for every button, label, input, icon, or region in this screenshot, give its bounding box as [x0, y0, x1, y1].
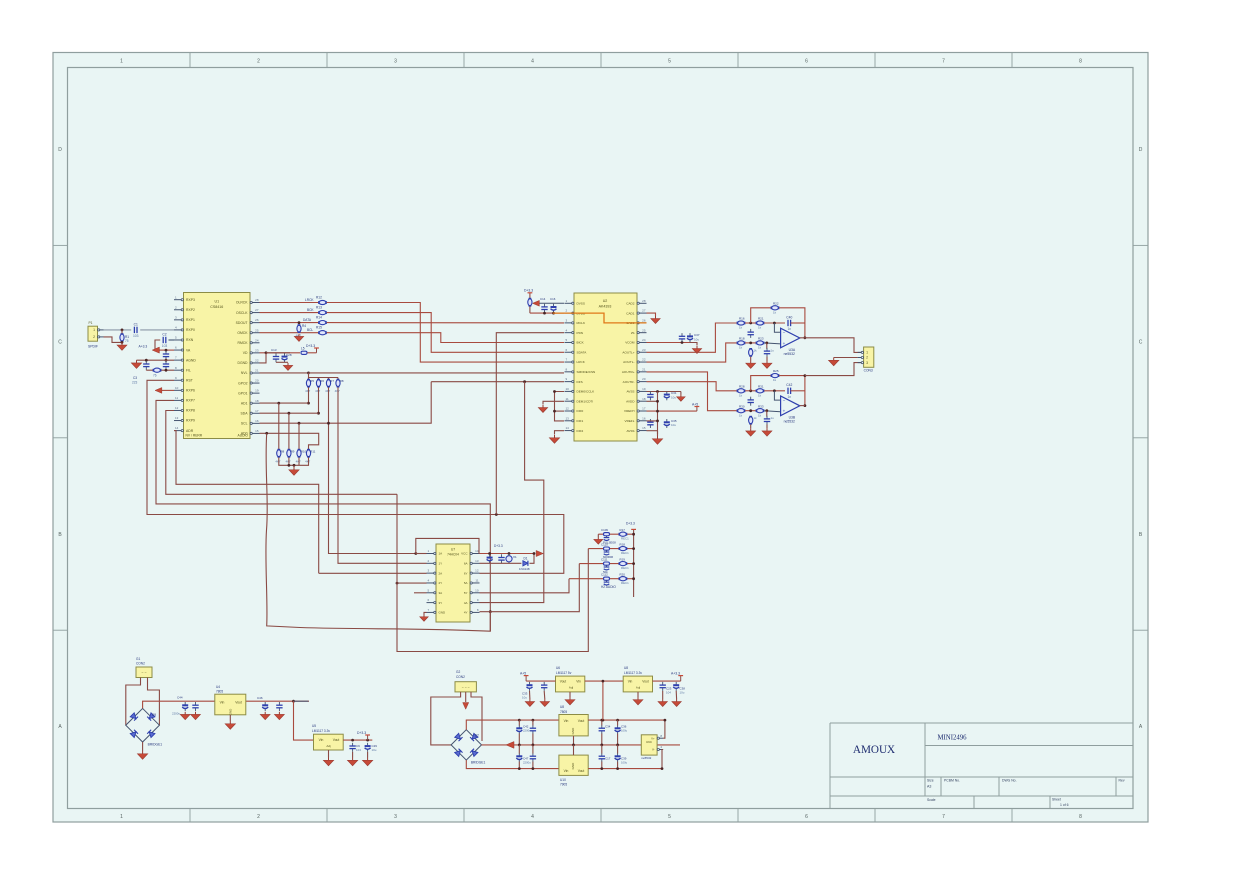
svg-text:GPO1: GPO1	[238, 391, 248, 395]
label C35 10u	[671, 419, 677, 427]
svg-text:AOUTL-: AOUTL-	[623, 360, 634, 364]
svg-text:LM1117 3.3v: LM1117 3.3v	[312, 729, 330, 733]
svg-text:2: 2	[93, 335, 95, 339]
power flag below G2	[463, 703, 469, 710]
svg-text:R22: R22	[773, 301, 779, 305]
svg-text:C111: C111	[601, 557, 608, 561]
wire OMCK to R15	[260, 332, 319, 334]
svg-text:D1: D1	[524, 557, 528, 561]
pin 7 AGND	[174, 356, 196, 363]
ic U2 AK4393	[574, 293, 637, 441]
svg-text:Vin: Vin	[628, 680, 633, 684]
svg-text:DATA: DATA	[303, 318, 312, 322]
svg-text:MINI2496: MINI2496	[938, 735, 968, 742]
svg-text:R10: R10	[301, 449, 307, 453]
ic U1 CS8416	[184, 293, 251, 439]
wire U7 6A	[480, 562, 522, 564]
svg-text:R30: R30	[739, 404, 745, 408]
wire D2 mid rail	[482, 744, 681, 746]
junction mid rail C12	[532, 744, 535, 747]
label C38 10u	[680, 687, 686, 695]
capacitor C50	[365, 743, 371, 752]
svg-text:ne5532: ne5532	[641, 756, 651, 760]
wire R r gnd	[750, 424, 752, 428]
label R7 4K7	[325, 379, 334, 393]
pin 14 DIF2	[565, 426, 584, 433]
svg-text:Vin: Vin	[564, 769, 569, 773]
junction U8 gnd	[572, 744, 575, 747]
label U9C ne5532	[641, 756, 651, 760]
svg-text:P1: P1	[88, 321, 92, 325]
wire pullup 2 top	[318, 378, 320, 379]
wire pullup rail	[309, 373, 339, 378]
pin 5 3A	[427, 588, 443, 595]
wire L lower rail	[737, 342, 741, 344]
ground below C44	[180, 712, 190, 720]
svg-text:U1: U1	[214, 300, 219, 304]
label R30	[739, 404, 745, 417]
label C9 104	[356, 744, 361, 752]
wire U10 gnd	[573, 745, 575, 755]
svg-text:Vout: Vout	[560, 680, 566, 684]
pin 12 RXP8	[174, 406, 195, 413]
junction C50 top	[366, 739, 369, 742]
pin 16 SCL	[241, 419, 260, 426]
pin 4 PDN	[565, 328, 584, 335]
wire L feedback right	[779, 308, 805, 338]
connector G1 CON2	[136, 667, 152, 678]
svg-text:Adj: Adj	[326, 744, 331, 748]
resistor R20 in row4	[619, 577, 628, 581]
svg-text:RMCK: RMCK	[238, 341, 249, 345]
svg-text:LRCK: LRCK	[577, 360, 586, 364]
wire pullup 4 top	[337, 378, 339, 379]
wire R8 drop	[278, 403, 280, 449]
wire H2 row4	[569, 578, 634, 580]
ground below C33	[525, 699, 534, 707]
pin 24 VCOM	[625, 338, 646, 345]
wire C47 dn stub	[518, 762, 520, 769]
wire H2 row1 left	[597, 534, 599, 537]
wire L6 to DVDD rail	[529, 306, 531, 313]
power A+5 at U6 out	[520, 671, 529, 681]
capacitor C47 lower	[516, 753, 522, 762]
svg-text:BCK: BCK	[307, 308, 314, 312]
label D+3.3 at DVDD	[524, 289, 533, 293]
wire H2 row3	[579, 563, 633, 565]
wire R9 bottom	[288, 457, 290, 465]
svg-text:DEM1/CDTI: DEM1/CDTI	[577, 399, 594, 403]
ground below R8-R11	[289, 467, 299, 475]
wire RXP6 pin flag	[160, 389, 174, 391]
svg-text:CON3: CON3	[864, 369, 873, 373]
label R18	[739, 337, 745, 350]
wire pullup3 tail to U7 1A	[329, 387, 416, 553]
label U5 LM1117	[312, 724, 330, 733]
svg-text:76: 76	[153, 374, 157, 378]
wire AOUTL- long	[647, 343, 737, 362]
svg-text:SDATA: SDATA	[577, 350, 588, 354]
svg-text:5: 5	[668, 59, 671, 65]
svg-text:C37: C37	[694, 333, 700, 337]
svg-text:R21: R21	[758, 317, 764, 321]
svg-text:2Y: 2Y	[439, 581, 443, 585]
svg-text:4A: 4A	[464, 601, 468, 605]
ground below C41	[762, 428, 772, 436]
label U4 7805	[216, 685, 223, 694]
pin 11 DEM1/CDTI	[565, 397, 594, 404]
svg-text:R11: R11	[310, 449, 315, 453]
wire SDOUT to R14	[260, 322, 319, 324]
capacitor C41 to gnd	[764, 416, 770, 425]
power A+5 at VREFH	[692, 402, 699, 411]
svg-text:1n: 1n	[787, 395, 791, 399]
capacitor C49	[349, 743, 355, 752]
svg-text:R16: R16	[739, 317, 745, 321]
svg-text:2: 2	[257, 814, 260, 820]
junction VA C5	[165, 349, 168, 352]
sheet background	[53, 53, 1148, 823]
svg-text:2: 2	[257, 59, 260, 65]
label R8 4K7	[275, 449, 284, 463]
svg-text:22: 22	[642, 358, 646, 362]
junction V- rail	[661, 767, 664, 770]
capacitor C33	[527, 682, 533, 691]
svg-text:A+3.3: A+3.3	[671, 671, 680, 675]
power flag right of U7	[536, 550, 543, 556]
svg-text:10u: 10u	[671, 423, 676, 427]
svg-text:C110: C110	[601, 542, 608, 546]
resistor R11	[306, 449, 310, 458]
capacitor C36	[163, 361, 169, 370]
label BCK R13	[307, 306, 322, 312]
svg-text:RXN: RXN	[186, 338, 194, 342]
label C42	[523, 725, 531, 733]
svg-text:AMOUX: AMOUX	[853, 744, 895, 756]
wire R inv node	[764, 390, 785, 392]
junction tail1 AD1	[307, 402, 310, 405]
wire C17 up mid2	[601, 745, 603, 754]
wire RXP7 bus	[156, 400, 490, 631]
resistor R30	[737, 409, 746, 413]
wire C19b up mid	[532, 745, 534, 754]
label 1N4148	[519, 567, 530, 571]
svg-text:D: D	[1139, 147, 1143, 153]
resistor R33	[756, 409, 765, 413]
svg-text:NV / RERR: NV / RERR	[186, 433, 203, 437]
label C23 104	[666, 687, 672, 695]
title block grid	[830, 723, 1133, 809]
svg-text:Vin: Vin	[220, 701, 225, 705]
pin 19 AVSS	[626, 387, 646, 394]
pin 19 GPO1	[238, 389, 259, 396]
svg-text:RXP8: RXP8	[186, 409, 195, 413]
ground below C45	[191, 712, 201, 720]
pin 23 VD	[243, 348, 260, 355]
wire C33 gnd	[529, 691, 531, 699]
svg-text:VA: VA	[186, 348, 191, 352]
svg-text:1n: 1n	[787, 327, 791, 331]
resistor R9	[287, 449, 291, 458]
pin 6 SDATA	[565, 348, 588, 355]
svg-text:PCBM No.: PCBM No.	[944, 779, 960, 783]
resistor R28	[737, 389, 746, 393]
capacitor C38b	[673, 682, 679, 691]
wire AD1 jog	[260, 402, 309, 404]
resistor L6 feed	[528, 298, 532, 307]
svg-text:223: 223	[132, 381, 138, 385]
svg-text:R18: R18	[620, 542, 626, 546]
resistor R5 pull-up	[306, 379, 310, 388]
wire L r gnd	[750, 357, 752, 361]
svg-text:Rev: Rev	[1119, 779, 1125, 783]
svg-text:GND: GND	[571, 727, 575, 735]
wire C10 gnd	[543, 691, 546, 699]
capacitor C42	[786, 383, 792, 399]
junction 4Y bus	[489, 610, 492, 613]
wire R c41 gnd	[766, 424, 768, 428]
svg-text:AOUTR-: AOUTR-	[623, 380, 635, 384]
pin 9 RST	[174, 376, 193, 383]
svg-text:A3: A3	[927, 785, 931, 789]
label U10 GND	[571, 762, 575, 770]
svg-text:1u: 1u	[771, 348, 775, 352]
pin 14 ADR	[174, 426, 194, 433]
pin 2 RXP2	[174, 305, 195, 312]
svg-text:1u: 1u	[771, 416, 775, 420]
capacitor C110 hang	[604, 550, 610, 555]
capacitor C27	[276, 702, 282, 711]
svg-text:AOUTL+: AOUTL+	[622, 350, 634, 354]
junction mid rail C42	[518, 744, 521, 747]
wire DVSS rail	[539, 302, 565, 304]
svg-text:25: 25	[642, 328, 646, 332]
svg-text:C13: C13	[271, 348, 277, 352]
pin 15 AVSS	[626, 426, 646, 433]
capacitor C16	[551, 304, 557, 313]
wire G1 pin2	[148, 678, 160, 726]
svg-text:SCL: SCL	[241, 422, 248, 426]
svg-text:X1: X1	[513, 555, 517, 559]
svg-text:Vout: Vout	[578, 769, 585, 773]
junction SCL R10	[298, 422, 301, 425]
ground at U5	[323, 758, 333, 766]
pin 2 1Y	[427, 559, 443, 566]
wire OLRCK to R12	[260, 302, 319, 304]
junction L inv	[773, 322, 776, 325]
resistor R4	[297, 324, 301, 333]
svg-text:VREFH: VREFH	[624, 409, 635, 413]
wire C42 to mid	[518, 734, 520, 745]
label R25	[773, 369, 779, 382]
wire AOUTR- long	[647, 382, 737, 391]
junction R1 pin2	[121, 341, 124, 344]
wire L inv drop	[774, 323, 780, 332]
resistor R21	[756, 321, 765, 325]
pin 10 RXP6	[174, 386, 195, 393]
wire AOUTR+ long	[647, 372, 737, 411]
ground at DEM1	[538, 405, 547, 413]
op-amp U3B ne5532	[781, 396, 800, 424]
svg-text:10: 10	[475, 588, 479, 592]
svg-text:AD1: AD1	[241, 401, 248, 405]
wire AVSS19 caps rail	[647, 391, 681, 393]
label C29 10u	[372, 744, 378, 752]
connector J1 CON3	[864, 347, 874, 367]
wire U6 vout left	[526, 680, 555, 682]
junction R noninv	[765, 409, 768, 412]
ground below C49	[347, 758, 357, 766]
wire C39 dn stub2	[617, 762, 619, 769]
svg-text:R31: R31	[758, 384, 764, 388]
wire R J2 to R4	[745, 410, 756, 412]
svg-text:1: 1	[93, 328, 95, 332]
wire -5 rail right	[588, 768, 662, 770]
svg-text:Vout: Vout	[642, 680, 648, 684]
wire SPDIF pin2 to ground	[104, 337, 123, 343]
ground below C46	[260, 712, 270, 720]
svg-text:FIL: FIL	[186, 368, 191, 372]
junction L noninv	[765, 342, 768, 345]
label H2 row4	[601, 573, 629, 586]
svg-text:24: 24	[255, 338, 259, 342]
connector P1 SPDIF	[88, 321, 98, 341]
wire G2 pin1	[431, 692, 461, 745]
capacitor C14	[541, 304, 547, 313]
bridge rectifier D2	[451, 730, 485, 765]
svg-text:Vin: Vin	[576, 680, 581, 684]
svg-text:AVSS: AVSS	[626, 390, 634, 394]
wire U7 1A pin	[416, 553, 427, 555]
pin 15 AD0	[241, 429, 260, 436]
label DATA R14	[303, 316, 322, 322]
ground below C46	[746, 428, 756, 436]
svg-text:RXP1: RXP1	[186, 318, 195, 322]
svg-text:1: 1	[866, 351, 868, 355]
power flag at DVSS rail	[533, 300, 540, 306]
svg-text:BRIDGE1: BRIDGE1	[148, 743, 163, 747]
wire U9C V- to -5	[662, 750, 663, 769]
junction U5 out	[351, 739, 354, 742]
label R22	[773, 301, 779, 314]
svg-text:R19: R19	[620, 557, 626, 561]
label C47	[523, 757, 531, 765]
wire R feedback loop	[751, 376, 771, 391]
svg-text:LRCK: LRCK	[305, 298, 314, 302]
wire AVDD	[647, 400, 658, 402]
ground at DIF2	[549, 435, 559, 443]
svg-text:D2: D2	[475, 734, 479, 738]
ferrite bead L4	[604, 577, 610, 580]
svg-text:BRIDGE1: BRIDGE1	[471, 761, 486, 765]
svg-text:D9: D9	[152, 713, 156, 717]
wire loop vertical and bottom	[397, 494, 588, 651]
svg-text:28: 28	[642, 299, 646, 303]
svg-text:SDOUT: SDOUT	[236, 321, 248, 325]
wire pullup4 tail to U7 1Y	[338, 387, 427, 563]
resistor R15	[318, 331, 327, 335]
svg-text:75: 75	[125, 339, 129, 343]
wire C47 up mid	[518, 745, 520, 754]
pin 23 AOUTL+	[622, 348, 646, 355]
svg-text:I/S: I/S	[631, 331, 635, 335]
wire AD0 net	[260, 433, 319, 449]
label R1 75	[125, 335, 129, 343]
svg-text:15: 15	[642, 426, 646, 430]
svg-text:10u: 10u	[694, 337, 699, 341]
capacitor C34 plus5	[599, 725, 605, 734]
resistor R23	[756, 341, 765, 345]
wire orange CAD0 net	[553, 313, 647, 323]
svg-text:R5: R5	[310, 379, 314, 383]
inductor L5	[301, 347, 307, 355]
junction AGND C6	[145, 359, 148, 362]
connector G2 CON2	[455, 682, 476, 692]
wire C23 gnd	[662, 691, 664, 699]
pin 17 SDA	[241, 409, 260, 416]
wire +5 rail right	[588, 719, 665, 721]
pin 8 FIL	[174, 366, 191, 373]
svg-text:17: 17	[255, 409, 259, 413]
wire C36 to mid2	[617, 734, 619, 745]
svg-text:REC1: REC1	[621, 581, 629, 585]
capacitor C37 at VCOM	[687, 333, 693, 342]
resistor R18	[737, 341, 746, 345]
ground at AGND	[131, 360, 141, 368]
wire ADR bus to U7 2A	[174, 431, 319, 574]
ground at bridge D9	[137, 751, 147, 759]
junction R J2	[749, 409, 752, 412]
svg-text:R4: R4	[302, 324, 306, 328]
label C13 C28	[271, 348, 292, 357]
svg-text:104: 104	[666, 691, 671, 695]
wire R cfb out	[791, 390, 805, 392]
junction VD	[265, 351, 268, 354]
capacitor C112 hang	[604, 581, 610, 586]
wire L c41 gnd	[766, 357, 768, 361]
svg-text:11: 11	[566, 397, 569, 401]
svg-text:16: 16	[255, 419, 259, 423]
pin 6 3Y	[427, 598, 443, 605]
resistor R12	[318, 300, 327, 304]
pin 1	[858, 351, 869, 355]
junction D1 VCC	[533, 552, 536, 555]
pin 14 VCC	[461, 549, 479, 556]
wire C12 top stub	[532, 720, 534, 725]
pin 13 6A	[464, 559, 480, 566]
label U6 LM1117 5v	[556, 666, 572, 675]
svg-text:ADR: ADR	[186, 429, 194, 433]
svg-text:D+3.3: D+3.3	[626, 522, 635, 526]
border column ruler numbers 1-8	[120, 53, 1082, 823]
wire L upper rail	[737, 322, 741, 324]
inner border frame	[68, 68, 1134, 809]
pin 1	[93, 328, 103, 332]
junction 9V rail	[292, 700, 295, 703]
regulator U10 7905	[559, 755, 588, 775]
svg-text:2200u: 2200u	[523, 761, 531, 765]
wire R15 to BICK pin	[327, 333, 564, 343]
svg-text:3A: 3A	[439, 591, 443, 595]
svg-text:22: 22	[255, 359, 259, 363]
svg-text:C112: C112	[601, 573, 608, 577]
svg-text:DIF2: DIF2	[577, 429, 584, 433]
junction AD0 wavy	[265, 432, 268, 435]
svg-text:1Y: 1Y	[439, 562, 443, 566]
svg-text:A+5: A+5	[692, 402, 698, 406]
wire L inv node	[764, 322, 785, 324]
label G1 CON2	[136, 657, 145, 666]
